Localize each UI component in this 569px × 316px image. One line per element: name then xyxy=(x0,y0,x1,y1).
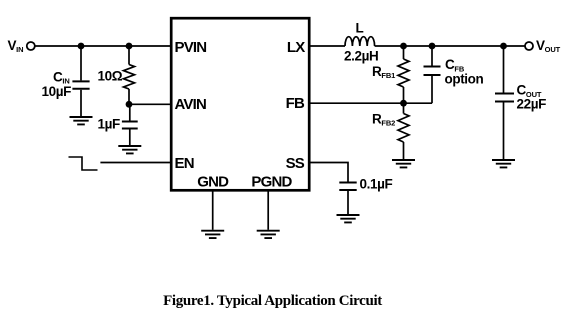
node junction RFB1 top xyxy=(400,43,407,50)
capacitor COUT xyxy=(495,94,514,102)
pin label FB xyxy=(286,95,305,112)
inductor L 2.2uH xyxy=(345,37,375,46)
node VIN input terminal xyxy=(27,42,35,50)
svg-text:VIN: VIN xyxy=(8,38,24,54)
label L xyxy=(356,21,364,36)
label RFB1 xyxy=(372,64,395,80)
resistor R 10 ohm xyxy=(124,65,135,90)
label 2.2uH xyxy=(344,48,378,63)
pin label SS xyxy=(286,155,305,172)
wire CFB bottom lead xyxy=(431,76,433,103)
svg-text:FB: FB xyxy=(286,95,305,112)
wire 1uF top lead xyxy=(129,104,131,120)
wire SS pin to soft-start cap xyxy=(309,163,348,182)
ground below COUT xyxy=(492,160,515,167)
svg-text:PGND: PGND xyxy=(251,173,292,190)
wire 1uF bottom lead xyxy=(129,130,131,146)
svg-text:GND: GND xyxy=(197,173,229,190)
pin label PVIN xyxy=(175,39,207,56)
pin label LX xyxy=(287,39,305,56)
capacitor CIN xyxy=(72,81,89,88)
svg-text:22µF: 22µF xyxy=(517,96,547,111)
node junction at CIN xyxy=(78,43,85,50)
wire RFB2 bottom lead xyxy=(403,142,405,159)
node junction AVIN xyxy=(126,101,133,108)
node junction at 10ohm resistor top xyxy=(126,43,133,50)
wire LX pin to inductor xyxy=(309,45,345,47)
capacitor 0.1uF soft start xyxy=(339,183,356,191)
resistor RFB2 xyxy=(398,114,409,143)
svg-text:RFB1: RFB1 xyxy=(372,64,395,80)
svg-text:PVIN: PVIN xyxy=(175,39,207,56)
svg-text:SS: SS xyxy=(286,155,305,172)
ground below RFB2 xyxy=(392,160,415,167)
EN enable step waveform symbol xyxy=(69,157,98,170)
wire AVIN node to AVIN pin xyxy=(129,103,171,105)
pin label GND xyxy=(197,173,229,190)
wire COUT top lead xyxy=(503,46,505,93)
wire 10ohm top lead xyxy=(128,46,130,65)
ground below CIN xyxy=(70,117,93,124)
wire CFB top lead xyxy=(431,46,433,66)
svg-text:RFB2: RFB2 xyxy=(372,111,395,127)
label VOUT xyxy=(536,38,561,54)
label 22uF xyxy=(517,96,547,111)
pin label EN xyxy=(175,155,194,172)
pin label PGND xyxy=(251,173,292,190)
wire RFB2 top lead xyxy=(403,103,405,113)
label RFB2 xyxy=(372,111,395,127)
svg-text:VOUT: VOUT xyxy=(536,38,561,54)
wire RFB1 bottom lead xyxy=(403,87,405,103)
wire CIN top lead xyxy=(80,46,82,80)
svg-text:L: L xyxy=(356,21,364,36)
ground below 0.1uF xyxy=(337,215,360,222)
ground below 1uF xyxy=(118,146,141,153)
caption Figure1. Typical Application Circuit xyxy=(163,293,382,309)
label 10uF xyxy=(42,84,72,99)
svg-text:EN: EN xyxy=(175,155,194,172)
wire FB pin to feedback node xyxy=(309,102,432,104)
wire inductor to VOUT xyxy=(375,45,525,47)
wire CIN bottom lead xyxy=(80,90,82,116)
node VOUT output terminal xyxy=(525,42,533,50)
wire COUT bottom lead xyxy=(503,103,505,160)
node junction COUT top xyxy=(500,43,507,50)
svg-text:LX: LX xyxy=(287,39,305,56)
label 10ohm xyxy=(98,69,123,84)
wire VIN to PVIN xyxy=(35,45,171,47)
label CFB xyxy=(445,57,465,73)
wire 10ohm bottom lead xyxy=(128,89,130,104)
label COUT xyxy=(517,83,542,99)
wire RFB1 top lead xyxy=(403,46,405,59)
svg-text:10µF: 10µF xyxy=(42,84,72,99)
resistor RFB1 xyxy=(398,59,409,87)
wire 0.1uF bottom lead xyxy=(347,191,349,214)
svg-text:option: option xyxy=(445,71,484,86)
node junction FB xyxy=(400,100,407,107)
svg-text:AVIN: AVIN xyxy=(175,96,207,113)
svg-text:Figure1. Typical Application C: Figure1. Typical Application Circuit xyxy=(163,293,382,309)
op-amp U1 regulator IC body xyxy=(171,18,309,190)
capacitor C 1uF xyxy=(122,122,138,129)
label CIN xyxy=(53,69,70,85)
ground below PGND pin xyxy=(257,231,280,238)
svg-text:1µF: 1µF xyxy=(98,117,120,132)
ground below GND pin xyxy=(201,231,224,238)
capacitor CFB xyxy=(424,67,441,76)
svg-text:2.2µH: 2.2µH xyxy=(344,48,378,63)
label VIN xyxy=(8,38,24,54)
wire PGND pin to ground xyxy=(267,190,269,230)
wire EN input xyxy=(100,162,171,164)
svg-text:10Ω: 10Ω xyxy=(98,69,123,84)
wire GND pin to ground xyxy=(212,190,214,230)
pin label AVIN xyxy=(175,96,207,113)
node junction CFB top xyxy=(429,43,436,50)
svg-text:0.1µF: 0.1µF xyxy=(360,177,393,192)
label option xyxy=(445,71,484,86)
label 1uF xyxy=(98,117,120,132)
label 0.1uF xyxy=(360,177,393,192)
